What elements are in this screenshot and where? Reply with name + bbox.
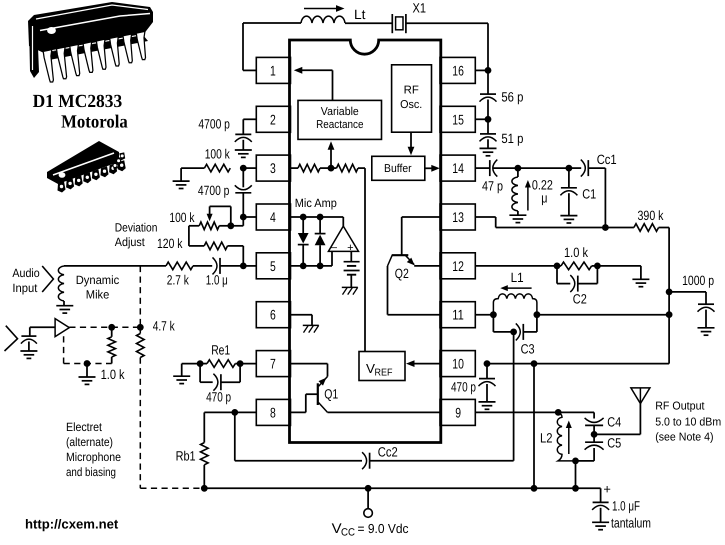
- wire pin8 row: [204, 411, 256, 413]
- wire pin12 row: [475, 265, 557, 267]
- node pin11 rail junction: [666, 311, 673, 318]
- wire Lt to X1: [345, 22, 392, 24]
- inductor Lt: [301, 16, 345, 23]
- svg-text:CC: CC: [341, 526, 355, 538]
- svg-text:= 9.0 Vdc: = 9.0 Vdc: [358, 521, 409, 536]
- node Re1 right junction: [237, 360, 244, 367]
- node Vcc rail L2 junction: [572, 485, 579, 492]
- node pin4 diode junctions: [300, 214, 307, 221]
- node C3 junction: [510, 329, 517, 336]
- wire pin6 to chassis ground: [290, 314, 313, 316]
- resistor Rb1: [203, 412, 205, 442]
- arrow over Lt: [304, 8, 338, 10]
- svg-text:15: 15: [452, 111, 464, 127]
- ground left of Re1: [181, 364, 183, 377]
- node L2 top junction: [555, 409, 562, 416]
- ground below mike coil: [56, 305, 73, 307]
- svg-text:and biasing: and biasing: [66, 465, 116, 479]
- node Rb1 bottom junction: [201, 485, 208, 492]
- svg-text:RF: RF: [404, 85, 419, 97]
- node pin5 diode junctions: [300, 263, 307, 270]
- arrow RF Osc to Buffer: [410, 132, 412, 151]
- node 47p junction: [515, 165, 522, 172]
- svg-text:C4: C4: [607, 415, 621, 430]
- potentiometer 100k deviation: [242, 217, 244, 226]
- wire pin3 network to VREF: [358, 167, 365, 169]
- wire top loop from pin1: [243, 69, 256, 71]
- capacitor 47p: [475, 167, 490, 169]
- svg-text:4: 4: [270, 209, 276, 225]
- svg-text:D1 MC2833: D1 MC2833: [33, 92, 123, 112]
- wire pin9 row: [475, 411, 558, 413]
- pin 3 box: [256, 155, 290, 181]
- svg-text:470 p: 470 p: [206, 390, 231, 405]
- Vcc terminal circle: [367, 488, 369, 508]
- inductor L2: [557, 412, 575, 461]
- svg-text:12: 12: [452, 258, 464, 274]
- svg-text:Deviation: Deviation: [115, 220, 158, 234]
- svg-text:http://cxem.net: http://cxem.net: [25, 516, 119, 531]
- block U1d VREF: [359, 352, 405, 381]
- wire audio line: [64, 265, 166, 267]
- dashed wire 4.7k down to bottom rail: [139, 358, 141, 489]
- pin 13 box: [440, 204, 475, 230]
- svg-text:3: 3: [270, 160, 276, 176]
- dashed vertical from audio line: [139, 266, 141, 327]
- resistor 100k at pin3: [243, 167, 256, 169]
- svg-text:RF Output: RF Output: [655, 400, 705, 412]
- svg-text:+: +: [347, 242, 354, 254]
- capacitor C2: [556, 266, 558, 284]
- audio input chevron: [42, 266, 53, 292]
- svg-text:470 p: 470 p: [451, 379, 476, 394]
- svg-text:51 p: 51 p: [501, 131, 523, 146]
- resistor 4.7k: [139, 327, 141, 333]
- capacitor Cc2 and row: [235, 460, 362, 462]
- node pin3 internal junction: [328, 165, 335, 172]
- svg-text:Osc.: Osc.: [400, 99, 422, 111]
- svg-text:1.0 k: 1.0 k: [564, 245, 588, 260]
- ground below 1000p: [698, 327, 715, 329]
- ground below 470p: [479, 401, 496, 403]
- crystal X1: [391, 14, 393, 33]
- svg-text:Input: Input: [12, 281, 38, 295]
- wire pin7 row: [182, 363, 200, 365]
- svg-text:Rb1: Rb1: [176, 449, 196, 464]
- node electret output 4.7k junction: [137, 324, 144, 331]
- inductor 0.22uH: [517, 168, 519, 177]
- capacitor 470p at pin10: [486, 364, 488, 379]
- capacitor 1.0uF tantalum: [600, 488, 602, 502]
- pin 11 box: [440, 302, 475, 328]
- node 390k junction: [602, 224, 609, 231]
- svg-text:C2: C2: [573, 291, 587, 306]
- pin 2 box: [256, 106, 290, 132]
- wire pin5 rail: [290, 265, 333, 267]
- capacitor C4: [558, 411, 594, 413]
- svg-text:1: 1: [270, 62, 276, 78]
- ground below 100k: [173, 180, 190, 182]
- wire 1.0k to ground: [597, 265, 641, 267]
- svg-text:2.7 k: 2.7 k: [167, 272, 189, 287]
- chassis ground below battery: [342, 286, 358, 288]
- svg-text:56 p: 56 p: [501, 89, 523, 104]
- node Re1 left junction: [197, 360, 204, 367]
- node pin4 external junction: [240, 214, 247, 221]
- wire electret input: [30, 326, 55, 328]
- svg-text:Dynamic: Dynamic: [76, 273, 120, 287]
- pin 12 box: [440, 253, 475, 279]
- capacitor Cc1: [569, 167, 581, 169]
- svg-text:+: +: [603, 482, 611, 497]
- antenna symbol: [631, 388, 650, 404]
- svg-text:(see Note 4): (see Note 4): [655, 432, 714, 444]
- svg-text:Variable: Variable: [321, 106, 359, 118]
- pin 9 box: [440, 399, 475, 425]
- svg-text:Cc1: Cc1: [597, 152, 617, 167]
- wire pin10 to VREF with arrow: [412, 363, 440, 365]
- diode D1 (down): [302, 217, 304, 233]
- svg-text:X1: X1: [413, 0, 427, 15]
- svg-text:Mic Amp: Mic Amp: [295, 196, 337, 210]
- svg-text:1.0 μF: 1.0 μF: [612, 499, 640, 514]
- node C1 junction: [566, 165, 573, 172]
- svg-text:1.0 μ: 1.0 μ: [206, 272, 228, 287]
- svg-text:6: 6: [270, 307, 276, 323]
- node Vcc terminal junction: [365, 485, 372, 492]
- capacitor 470p parallel Re1: [199, 364, 201, 383]
- svg-text:Q2: Q2: [395, 266, 409, 281]
- node electret output 1.0k junction: [108, 324, 115, 331]
- ground electret bias: [79, 376, 96, 378]
- node pin8 junction: [231, 409, 238, 416]
- IC package DIP-16 illustration: [28, 2, 153, 82]
- node pin10 row mid junction: [531, 360, 538, 367]
- wire mid junction down to Vcc rail: [533, 364, 535, 489]
- svg-text:Re1: Re1: [211, 343, 230, 358]
- svg-text:1.0 k: 1.0 k: [101, 367, 125, 382]
- resistor 2.7k: [166, 262, 193, 270]
- node 470p junction (pin10): [484, 360, 491, 367]
- capacitor 1000p: [669, 291, 706, 293]
- capacitor 4700p pin3-pin4: [242, 168, 244, 187]
- inductor dynamic mike: [58, 266, 64, 301]
- pin 6 box: [256, 302, 290, 328]
- svg-text:10: 10: [452, 356, 464, 372]
- ground below tantalum: [592, 521, 609, 523]
- svg-text:Q1: Q1: [324, 386, 338, 401]
- pin 5 box: [256, 253, 290, 279]
- arrow beside L2: [568, 426, 570, 454]
- capacitor 56p: [487, 70, 489, 94]
- electret input chevron: [5, 326, 18, 351]
- dashed wire electret bias across: [64, 363, 112, 365]
- wire pin16 stub: [475, 69, 488, 71]
- svg-text:8: 8: [270, 404, 276, 420]
- capacitor electret input: [29, 327, 31, 336]
- svg-text:4700 p: 4700 p: [198, 116, 230, 131]
- wire C3 junction down to Cc2 row: [513, 332, 515, 461]
- capacitor C3 on tank bottom: [492, 315, 494, 332]
- wire L2 bottom to Vcc rail: [575, 461, 577, 488]
- transistor Q1: [290, 363, 328, 365]
- pin 1 box: [256, 57, 290, 83]
- ground below 4700p pin2: [235, 149, 252, 151]
- pin 4 box: [256, 204, 290, 230]
- svg-text:Adjust: Adjust: [115, 235, 146, 249]
- ground below 0.22uH: [509, 214, 526, 216]
- wire pin10 row: [474, 363, 476, 365]
- node pin3 external junction: [240, 165, 247, 172]
- node Vcc rail mid junction: [531, 485, 538, 492]
- wire X1 to pin16: [406, 22, 488, 24]
- electret amplifier triangle: [55, 319, 69, 337]
- wire 47p junction to C1 junction: [518, 167, 569, 169]
- svg-text:–: –: [331, 241, 338, 253]
- IC U1 MC2833 body outline: [290, 40, 441, 443]
- transistor Q2: [402, 216, 440, 218]
- dashed bottom rail to Rb1: [140, 487, 204, 489]
- pin 8 box: [256, 399, 290, 425]
- battery reference symbol: [350, 251, 352, 261]
- block U1b RF Osc: [392, 65, 432, 132]
- diode D2 (up): [319, 217, 321, 234]
- block U1a Variable Reactance: [298, 100, 382, 139]
- svg-text:(alternate): (alternate): [66, 435, 113, 449]
- svg-text:100 k: 100 k: [205, 147, 230, 162]
- arrow beside 0.22uH: [527, 186, 529, 211]
- svg-text:390 k: 390 k: [638, 208, 664, 223]
- svg-text:120 k: 120 k: [157, 236, 183, 251]
- node 1.0k left junction: [554, 263, 561, 270]
- ground below C1: [560, 215, 577, 217]
- pin 10 box: [440, 351, 475, 377]
- chassis ground pin 6: [303, 324, 319, 326]
- pot wiper arrow loop: [230, 206, 232, 225]
- resistor 1.0k: [557, 265, 561, 267]
- node 1000p junction: [666, 289, 673, 296]
- wire Variable Reactance control arrow: [330, 147, 332, 168]
- svg-text:4.7 k: 4.7 k: [153, 319, 175, 334]
- block U1c Buffer: [372, 156, 425, 180]
- wire pot left to 120k: [189, 225, 199, 227]
- capacitor 51p: [487, 119, 489, 134]
- inductor L1: [493, 294, 537, 315]
- dashed wire electret bias down: [63, 336, 65, 363]
- wire pin4 rail: [290, 216, 344, 218]
- node pin5 external junction: [240, 263, 247, 270]
- pin 7 box: [256, 351, 290, 377]
- node electret bias ground junction: [84, 360, 91, 367]
- arrow over L1: [506, 287, 532, 289]
- svg-text:100 k: 100 k: [169, 210, 194, 225]
- internal resistor left half (pin 3): [290, 167, 299, 169]
- wire right rail down: [668, 228, 670, 364]
- resistor Re1: [200, 363, 207, 365]
- node L1 left junction: [490, 311, 497, 318]
- wire bias ground lead: [86, 364, 88, 378]
- svg-text:Buffer: Buffer: [384, 163, 412, 175]
- svg-text:Motorola: Motorola: [61, 113, 128, 133]
- node pin15 junction: [485, 116, 492, 123]
- IC package SOIC-16 illustration: [47, 141, 126, 193]
- wire antenna feed: [594, 433, 640, 435]
- pin 16 box: [440, 57, 475, 83]
- svg-text:C3: C3: [521, 342, 535, 357]
- pin 15 box: [440, 106, 475, 132]
- wire pin8 junction down to Cc2 row: [234, 412, 236, 460]
- resistor 120k: [204, 242, 227, 250]
- svg-text:Cc2: Cc2: [378, 445, 398, 460]
- op-amp mic amp triangle: [328, 226, 358, 251]
- svg-text:1000 p: 1000 p: [682, 273, 714, 288]
- node pin16 junction: [485, 67, 492, 74]
- node L1 right junction: [534, 311, 541, 318]
- svg-text:5: 5: [270, 258, 276, 274]
- resistor 1.0k electret: [111, 327, 113, 337]
- arrow Buffer to pin 14: [425, 167, 433, 169]
- svg-text:C1: C1: [582, 186, 596, 201]
- svg-text:Audio: Audio: [12, 266, 40, 280]
- svg-text:7: 7: [270, 356, 276, 372]
- wire pin1 to Variable Reactance with arrow: [298, 69, 333, 71]
- svg-text:47 p: 47 p: [482, 179, 503, 194]
- svg-text:2: 2: [270, 111, 276, 127]
- ground below 51p: [480, 147, 497, 149]
- wire pin13 row: [475, 216, 495, 218]
- dashed wire electret output: [69, 326, 140, 328]
- ground below electret input cap: [20, 350, 37, 352]
- svg-text:C5: C5: [607, 435, 621, 450]
- pin 14 box: [440, 155, 475, 181]
- ground right of 1.0k: [632, 278, 649, 280]
- svg-text:μ: μ: [541, 191, 547, 206]
- svg-text:L2: L2: [540, 431, 553, 446]
- svg-text:5.0 to 10 dBm: 5.0 to 10 dBm: [655, 416, 721, 428]
- node 1.0k right junction: [594, 263, 601, 270]
- internal resistor right half (pin 3): [331, 167, 337, 169]
- svg-text:4700 p: 4700 p: [198, 183, 230, 198]
- svg-text:11: 11: [452, 307, 464, 323]
- wire pin11 row: [475, 314, 493, 316]
- svg-text:Microphone: Microphone: [66, 450, 121, 464]
- resistor 390k: [605, 227, 634, 229]
- node C4-C5 junction: [591, 431, 598, 438]
- svg-text:L1: L1: [511, 270, 524, 285]
- capacitor 4700p at pin2: [243, 118, 256, 120]
- wire pin11 row to rail: [537, 314, 669, 316]
- node L2 bottom junction: [572, 458, 579, 465]
- svg-text:16: 16: [452, 62, 464, 78]
- svg-text:tantalum: tantalum: [611, 516, 651, 531]
- svg-text:Mike: Mike: [86, 288, 110, 302]
- capacitor C5: [593, 434, 595, 442]
- wire pin15 stub: [475, 118, 488, 120]
- capacitor C1: [568, 168, 570, 188]
- svg-text:Electret: Electret: [66, 420, 103, 434]
- svg-text:REF: REF: [375, 368, 393, 379]
- svg-text:Lt: Lt: [354, 7, 366, 22]
- wire Cc1 down to 390k row: [604, 168, 606, 227]
- svg-text:Reactance: Reactance: [316, 119, 363, 131]
- capacitor 1.0u: [219, 258, 221, 274]
- svg-text:9: 9: [455, 404, 461, 420]
- Vcc rail: [204, 487, 600, 489]
- svg-text:14: 14: [452, 160, 464, 176]
- svg-text:13: 13: [452, 209, 464, 225]
